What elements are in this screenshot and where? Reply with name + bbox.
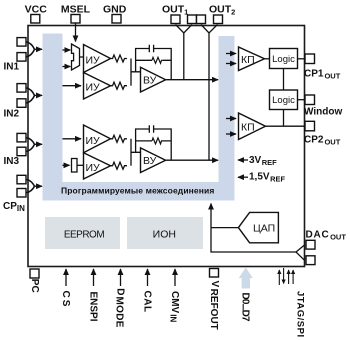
3VREF arrow [238,155,277,167]
pin IN3 (pair) [4,133,27,167]
resistor R1 [111,55,128,62]
resistor R3 [111,135,128,142]
pin CPIN (pair) [3,175,26,213]
OUT1 funnel [176,25,193,34]
unnamed top pin A [188,15,197,24]
svg-text:ИУ: ИУ [86,55,101,67]
wire bar to IA2 [63,85,82,87]
op-amp IA2 (ИУ) [84,73,111,100]
svg-text:КП: КП [241,54,255,66]
CPIN merge buffer [27,180,43,193]
wire riser up to interconnect band [210,204,212,228]
resistor R2 [111,82,128,89]
pin GND [103,4,127,24]
pin VREFOUT [208,269,220,330]
wire join ch2 [131,139,141,166]
unnamed top pin B [197,15,206,24]
wire bar to mux input 1 [63,49,71,51]
programmable interconnect right bar [219,36,235,201]
pin CP2OUT [304,121,341,146]
svg-text:IN1: IN1 [4,62,20,73]
wire DAC to riser [211,227,238,229]
wire Logic2 to Window pin [298,99,305,101]
EEPROM block [45,217,120,249]
op-amp IA4 (ИУ) [84,153,111,179]
svg-text:CAL: CAL [142,291,153,313]
IN1 merge buffer [27,42,43,57]
op-amp BU1 (ВУ) [141,67,166,92]
feedback network ch1: rails [136,49,172,80]
wire OUT2 drop [208,33,210,160]
svg-text:CPIN: CPIN [3,201,25,213]
wire bar to mux input 2 [63,66,71,68]
capacitor C1 [149,45,153,53]
programmable interconnect left bar [43,34,63,201]
capacitor C2 [149,125,153,133]
svg-text:ИОН: ИОН [153,228,176,240]
svg-text:ИУ: ИУ [86,162,101,174]
Logic block 1 [270,49,298,69]
feedback resistor RF2 [152,138,163,144]
pin CS arrow [60,269,71,308]
svg-text:PC: PC [29,279,40,293]
comparator KP1 (КП) [239,47,265,71]
wire Logic2 down to KP2 output [283,110,285,127]
wire KP2 to CP2 pin [266,125,305,127]
mux MSEL (2:1) [72,44,80,70]
op-amp IA3 (ИУ) [84,125,111,153]
resistor R4 [111,162,128,169]
programmable interconnect bottom band [43,182,235,201]
wire MSEL to mux [75,23,77,42]
wire riser down [211,228,296,252]
wire bar to IA3 [63,138,82,140]
svg-text:DMODE: DMODE [114,288,126,327]
pin CAL arrow [142,269,153,313]
op-amp IA1 (ИУ) [84,45,111,73]
pin Window [304,95,342,118]
chip body border [28,26,305,267]
feedback network ch2: rails [136,129,172,160]
svg-text:Программируемые межсоединения: Программируемые межсоединения [61,186,214,196]
wire join ch1 [131,59,141,86]
input resistor block ch2 [72,159,78,173]
pin PC [29,269,40,293]
wire BU1 output to right bar [166,79,218,81]
IN3 merge buffer [27,138,43,152]
svg-text:CMVIN: CMVIN [168,291,180,322]
pin DACOUT (pair) [306,230,347,265]
1,5VREF arrow [238,172,285,184]
svg-text:CP2OUT: CP2OUT [304,135,341,147]
svg-text:EEPROM: EEPROM [64,230,105,241]
svg-text:MSEL: MSEL [61,4,91,16]
wires bar to KP2 inputs [226,118,236,120]
wire bar to input resistor ch2 [63,164,70,166]
svg-text:CP1OUT: CP1OUT [304,69,341,81]
svg-text:IN2: IN2 [4,109,20,120]
wire Logic1 to CP1 pin [298,58,305,60]
svg-text:ИУ: ИУ [86,135,101,147]
svg-text:3VREF: 3VREF [249,155,277,167]
pin IN1 (pair) [4,38,27,73]
pin CP1OUT [304,54,341,81]
svg-text:Logic: Logic [272,54,295,65]
svg-text:ENSPI: ENSPI [88,292,99,322]
wires bar to KP1 inputs [226,53,236,55]
pin OUT2 [209,4,235,24]
svg-text:Logic: Logic [272,95,295,106]
svg-text:OUT1: OUT1 [162,4,188,17]
svg-text:OUT2: OUT2 [209,4,235,17]
wire resistor to IA4 [77,164,84,166]
wire BU2 output to right bar [166,159,218,161]
wire Logic1 to Logic2 [283,69,285,91]
svg-text:D0...D7: D0...D7 [239,293,250,323]
DAC (ЦАП) block [238,212,278,242]
ION (voltage reference) block [127,217,203,249]
svg-text:GND: GND [103,4,127,16]
svg-text:VREFOUT: VREFOUT [208,281,220,330]
svg-text:VCC: VCC [25,4,48,16]
svg-text:ЦАП: ЦАП [253,223,275,235]
svg-text:КП: КП [241,122,255,134]
svg-text:ИУ: ИУ [86,82,101,94]
svg-text:ВУ: ВУ [143,155,157,167]
svg-text:Window: Window [304,107,342,118]
wire mux to IA1 [80,56,84,58]
wire KP1 to Logic1 [265,58,270,60]
D0..D7 bus arrow [239,268,253,323]
JTAG/SPI arrows [279,268,305,338]
pin CMVIN arrow [168,269,180,322]
pin MSEL [61,4,91,24]
svg-text:JTAG/SPI: JTAG/SPI [295,291,306,338]
feedback resistor RF1 [152,57,163,63]
wire OUT1 drop [183,33,185,80]
OUT2 funnel [201,25,218,34]
svg-text:1,5VREF: 1,5VREF [249,172,285,184]
IN2 merge buffer [27,88,43,103]
pin DMODE arrow [114,269,126,328]
op-amp BU2 (ВУ) [141,148,166,173]
pin VCC [25,4,48,24]
svg-text:CS: CS [60,291,71,309]
DAC output funnel [296,245,305,260]
svg-text:ВУ: ВУ [143,75,157,87]
comparator KP2 (КП) [239,113,266,140]
svg-text:DACOUT: DACOUT [306,230,347,242]
svg-text:IN3: IN3 [4,156,20,167]
pin OUT1 [162,4,188,24]
pin IN2 (pair) [4,84,27,120]
pin ENSPI arrow [88,269,99,322]
Logic block 2 [270,90,298,110]
